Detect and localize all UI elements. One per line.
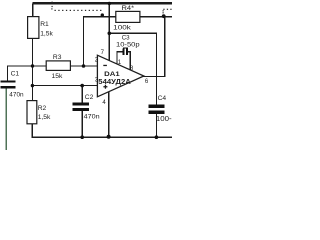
svg-text:C4: C4 xyxy=(158,95,167,102)
svg-text:R3: R3 xyxy=(53,54,62,61)
resistor R3 xyxy=(46,54,70,80)
svg-text:15k: 15k xyxy=(52,73,63,80)
capacitor C2 xyxy=(73,103,90,111)
wire R4 right segment xyxy=(140,16,172,17)
resistor R1 xyxy=(28,17,54,39)
svg-text:C3: C3 xyxy=(122,34,130,41)
wire C1 top lead xyxy=(7,65,8,80)
svg-text:100-: 100- xyxy=(156,116,172,123)
wire C1 bottom lead (greenish scan artifact) xyxy=(6,89,7,151)
svg-text:R4*: R4* xyxy=(122,5,135,12)
svg-text:10-50p: 10-50p xyxy=(116,41,140,48)
wire compensation top horizontal xyxy=(109,33,157,34)
wire output/C4 vertical x=156.4 xyxy=(156,33,157,105)
svg-text:R1: R1 xyxy=(40,21,49,28)
svg-text:1,5k: 1,5k xyxy=(38,114,51,121)
wire op-amp pin 4 riser xyxy=(108,92,109,138)
wire top supply rail xyxy=(32,2,172,4)
node dotted line terminal on R4 wire xyxy=(101,13,104,16)
node R4 right / output vertical xyxy=(162,14,166,18)
wire input node horizontal (C1 to op-amp pin 2) xyxy=(7,65,98,66)
capacitor C1 xyxy=(0,80,15,88)
node ground / C4 xyxy=(155,135,159,139)
dotted link left xyxy=(51,2,101,11)
node R2 top / pin3 wire xyxy=(31,84,34,87)
svg-text:C2: C2 xyxy=(85,94,94,101)
svg-text:R2: R2 xyxy=(38,105,47,112)
svg-text:544УД2А: 544УД2А xyxy=(98,77,131,86)
wire R4 left segment xyxy=(83,16,116,17)
op-amp DA1 triangle xyxy=(97,55,143,97)
svg-text:C1: C1 xyxy=(11,71,20,78)
wire op-amp output xyxy=(143,76,166,77)
node A (R1/R2/C1/R3) xyxy=(31,64,34,67)
resistor R4 xyxy=(113,5,140,31)
resistor R2 xyxy=(27,101,51,124)
dotted link right xyxy=(163,9,172,14)
node top rail / pin7 riser xyxy=(108,2,111,5)
junction dots xyxy=(31,2,166,139)
wire R1 top lead xyxy=(32,4,33,18)
node feedback / pin2 wire xyxy=(82,64,86,68)
wire R1-R2 vertical through node A xyxy=(32,38,33,101)
wire pin 3 horizontal xyxy=(32,85,98,86)
wire pin 1 riser xyxy=(117,51,118,64)
node C2 / pin3 wire xyxy=(80,84,84,88)
wire feedback vertical x=83.5 xyxy=(83,16,84,66)
op-amp minus sign xyxy=(103,65,107,66)
wire op-amp pin 7 riser xyxy=(109,4,110,62)
svg-text:470n: 470n xyxy=(9,92,24,99)
node pin7 / compensation wire xyxy=(108,32,112,36)
op-amp plus sign xyxy=(103,86,107,87)
wire R2 bottom lead xyxy=(32,124,33,138)
svg-text:470n: 470n xyxy=(84,113,100,120)
wire R4 output vertical x=164.2 xyxy=(164,16,165,77)
wire pin 8 riser xyxy=(130,51,131,70)
node ground / C2 xyxy=(80,135,84,139)
svg-text:100k: 100k xyxy=(113,24,131,31)
svg-text:1: 1 xyxy=(118,59,122,66)
wire C2 vertical lead xyxy=(82,86,83,103)
wire C4 bottom lead xyxy=(156,114,157,138)
svg-text:1,5k: 1,5k xyxy=(40,30,53,37)
trimmer capacitor C3 xyxy=(117,47,131,70)
capacitor C4 xyxy=(149,104,165,114)
wire ground rail xyxy=(32,137,173,139)
node ground / pin4 xyxy=(107,135,111,139)
